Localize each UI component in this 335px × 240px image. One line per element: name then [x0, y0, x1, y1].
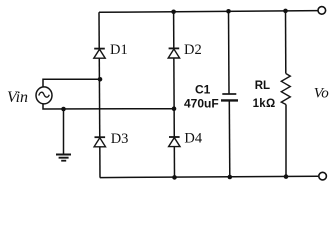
svg-text:D2: D2	[184, 42, 202, 58]
svg-text:470uF: 470uF	[184, 97, 219, 111]
svg-text:RL: RL	[255, 80, 270, 92]
svg-text:D4: D4	[184, 131, 202, 147]
svg-text:Vo: Vo	[314, 85, 330, 101]
svg-text:C1: C1	[195, 83, 211, 97]
svg-text:D1: D1	[110, 42, 128, 58]
svg-text:Vin: Vin	[7, 89, 28, 106]
svg-text:D3: D3	[111, 131, 129, 147]
svg-text:1kΩ: 1kΩ	[253, 98, 276, 110]
